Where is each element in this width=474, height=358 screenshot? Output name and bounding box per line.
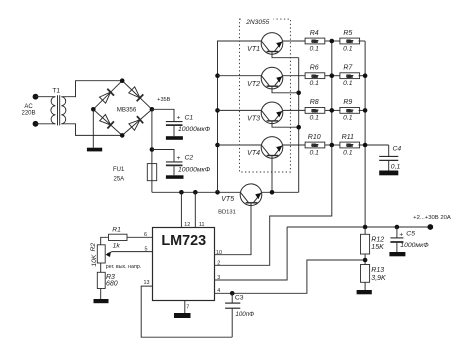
- wire bases bus vertical: [298, 58, 300, 193]
- wire VT4 emitter to R10: [283, 144, 306, 146]
- node bases bus VT3 junction: [296, 125, 301, 130]
- svg-text:+: +: [399, 231, 403, 238]
- bridge rectifier MB356: [93, 81, 152, 136]
- node C3 tap on pin 4 line: [230, 291, 235, 296]
- svg-text:FU1: FU1: [113, 167, 125, 173]
- wire collector bus to VT4: [218, 144, 262, 146]
- diode bottom-to-right: [129, 120, 140, 131]
- wire VT2 base to bases bus: [272, 86, 299, 93]
- resistor R12 15K: [361, 227, 385, 254]
- wire transformer secondary top to bridge top vertex: [61, 81, 122, 97]
- ground below pin 7: [174, 313, 191, 318]
- resistor R1 1k: [109, 226, 128, 249]
- svg-text:11: 11: [199, 222, 205, 228]
- wire R10 to R11 row 4: [325, 144, 340, 146]
- label AC 220V: [21, 104, 35, 116]
- svg-text:R7: R7: [343, 65, 353, 72]
- wire AC top to transformer primary: [36, 96, 56, 98]
- diode left-to-bottom: [100, 115, 111, 126]
- svg-text:1000мкФ: 1000мкФ: [400, 242, 429, 249]
- ground below C5: [389, 252, 405, 256]
- wire VT2 emitter to R6: [283, 75, 306, 77]
- dashed group box 2N3055: [240, 19, 291, 172]
- wire pin 12 lead: [180, 192, 182, 227]
- wire LM723 pin 3 up to output line: [215, 227, 288, 280]
- node rail pin12 tap: [179, 190, 184, 195]
- diode left-to-top: [100, 92, 111, 103]
- svg-text:+: +: [177, 115, 181, 122]
- capacitor C4 0.1: [379, 145, 401, 171]
- wire bridge left vertex to ground: [92, 109, 94, 147]
- ground below C4: [379, 171, 398, 176]
- svg-text:15K: 15K: [371, 244, 384, 251]
- svg-text:100пФ: 100пФ: [235, 311, 254, 318]
- node output terminal: [427, 224, 433, 230]
- wire +35V rail from fuse to VT5 collector: [152, 191, 241, 193]
- node bridge top vertex: [120, 78, 125, 83]
- svg-text:рег. вых. напр.: рег. вых. напр.: [106, 264, 142, 270]
- node AC input bottom terminal: [33, 121, 39, 127]
- svg-text:R8: R8: [310, 99, 319, 106]
- wire R12 to R13: [364, 254, 366, 265]
- svg-text:R2: R2: [90, 243, 97, 252]
- wire R11 to bus2 and C4 row 4: [359, 144, 389, 146]
- node bus1 row 1: [330, 39, 335, 44]
- resistor R3 680: [97, 272, 117, 288]
- svg-text:R10: R10: [308, 134, 321, 141]
- capacitor C2 10000uF: [166, 155, 211, 176]
- resistor R13 3.9K: [361, 265, 387, 283]
- svg-text:C5: C5: [406, 230, 415, 237]
- node bus1 row 3: [330, 108, 335, 113]
- svg-text:T1: T1: [52, 88, 60, 95]
- svg-text:R6: R6: [310, 65, 319, 72]
- resistor R9 0.1 5W: [340, 108, 360, 114]
- ground below C2: [166, 175, 184, 179]
- node C2 branch: [150, 147, 155, 152]
- svg-text:VT4: VT4: [247, 150, 260, 157]
- transistor VT3: [261, 102, 283, 124]
- svg-text:7: 7: [186, 305, 189, 311]
- node bridge left vertex: [91, 107, 96, 112]
- wire VT3 emitter to R8: [283, 109, 306, 111]
- transistor VT2: [261, 67, 283, 89]
- svg-text:C1: C1: [185, 114, 194, 121]
- wire R6 to R7 row 2: [325, 75, 340, 77]
- node divider junction: [363, 258, 368, 263]
- svg-text:10: 10: [216, 250, 222, 256]
- capacitor C5 1000uF: [390, 227, 429, 252]
- node bus1 row 2: [330, 73, 335, 78]
- svg-text:10000мкФ: 10000мкФ: [178, 167, 211, 174]
- svg-text:0.1: 0.1: [343, 149, 353, 156]
- transistor VT1: [261, 33, 283, 55]
- wire C2 branch: [152, 150, 174, 162]
- wire VT1 base to bases bus: [272, 52, 299, 58]
- svg-text:C4: C4: [393, 145, 402, 152]
- wire LM723 pin 13 via bottom to C3: [141, 286, 232, 337]
- node bases bus VT2 junction: [296, 91, 301, 96]
- svg-text:1k: 1k: [113, 242, 121, 249]
- svg-text:10000мкФ: 10000мкФ: [178, 126, 211, 133]
- wire R3 to ground: [100, 289, 102, 300]
- node rail pin11 tap: [193, 190, 198, 195]
- diode top-to-right: [129, 87, 140, 98]
- node collector bus VT3: [215, 108, 220, 113]
- svg-text:10K: 10K: [91, 254, 98, 267]
- wire +35V node to C1: [152, 109, 174, 121]
- node bus1 row 4: [330, 143, 335, 148]
- node bus2 row 4: [363, 143, 368, 148]
- wire sense bus1 down to LM723 pin 2: [215, 41, 332, 265]
- transistor VT5 BD131: [240, 184, 262, 206]
- wire VT3 base to bases bus: [272, 121, 299, 127]
- resistor R11 0.1 5W: [340, 142, 360, 148]
- svg-text:R9: R9: [343, 99, 352, 106]
- svg-text:C2: C2: [185, 155, 194, 162]
- transformer T1: [51, 88, 66, 126]
- svg-text:R11: R11: [342, 134, 354, 141]
- svg-text:R4: R4: [310, 30, 319, 37]
- resistor R8 0.1 5W: [305, 108, 325, 114]
- svg-text:0.1: 0.1: [343, 115, 353, 122]
- svg-text:VT5: VT5: [221, 196, 234, 203]
- wire main +35V vertical through fuse: [151, 109, 153, 192]
- ground below bridge: [87, 148, 102, 152]
- ground below C1: [166, 136, 183, 140]
- svg-text:VT3: VT3: [247, 116, 260, 123]
- wire R2 bottom to R3: [100, 263, 102, 272]
- svg-text:R1: R1: [112, 226, 121, 233]
- resistor R5 0.1 5W: [340, 38, 360, 44]
- svg-text:220В: 220В: [21, 111, 35, 117]
- node bus2 row 3: [363, 108, 368, 113]
- wire R5 to bus2 row 1: [359, 40, 366, 42]
- svg-text:BD131: BD131: [218, 210, 236, 216]
- wire R13 to ground: [364, 282, 366, 290]
- svg-text:VT1: VT1: [247, 46, 260, 53]
- transistor VT4: [261, 137, 283, 159]
- node collector bus VT4: [215, 143, 220, 148]
- svg-text:LM723: LM723: [161, 233, 206, 249]
- wire R8 to R9 row 3: [325, 109, 340, 111]
- wire R9 to bus2 row 3: [359, 109, 366, 111]
- svg-text:R12: R12: [371, 237, 384, 244]
- wire transformer secondary bottom to bridge bottom vertex: [61, 124, 122, 136]
- wire R1 to LM723 pin 6: [127, 236, 153, 238]
- svg-text:0.1: 0.1: [309, 80, 319, 87]
- svg-text:3,9K: 3,9K: [371, 275, 386, 282]
- wire LM723 pin 5 to R2 wiper: [107, 252, 153, 254]
- svg-text:0.1: 0.1: [309, 45, 319, 52]
- wire pin 11 lead: [194, 192, 196, 227]
- wire R4 to R5 row 1: [325, 40, 340, 42]
- svg-text:0,1: 0,1: [391, 164, 401, 171]
- resistor R10 0.1 5W: [305, 142, 325, 148]
- wire AC bottom to transformer primary: [36, 123, 56, 125]
- resistor R7 0.1 5W: [340, 73, 360, 79]
- wire output bus2 down to output line: [364, 41, 366, 227]
- svg-text:13: 13: [144, 280, 150, 286]
- svg-text:0.1: 0.1: [343, 80, 353, 87]
- svg-text:0.1: 0.1: [343, 45, 353, 52]
- IC LM723: [153, 228, 215, 301]
- svg-text:0.1: 0.1: [309, 115, 319, 122]
- wire R1 left to R2 top: [101, 237, 109, 245]
- svg-text:12: 12: [184, 222, 190, 228]
- capacitor C1 10000uF: [166, 114, 211, 136]
- wire pin 7 to ground: [184, 301, 186, 314]
- svg-text:+2...+30В 20А: +2...+30В 20А: [413, 215, 451, 221]
- node bridge bottom vertex: [120, 133, 125, 138]
- svg-text:25A: 25A: [114, 177, 125, 183]
- R2 wiper arrow: [106, 252, 111, 257]
- node bus2 row 2: [363, 73, 368, 78]
- node collector bus VT2: [215, 73, 220, 78]
- wire collector bus up to VT1: [218, 41, 262, 192]
- ground below R13: [357, 290, 372, 294]
- node VT5 emitter / VT4 base junction: [270, 190, 275, 195]
- svg-text:0.1: 0.1: [309, 149, 319, 156]
- resistor R6 0.1 5W: [305, 73, 325, 79]
- svg-text:R13: R13: [371, 267, 384, 274]
- svg-text:VT2: VT2: [247, 81, 260, 88]
- svg-text:2N3055: 2N3055: [245, 19, 269, 26]
- ground below R3: [94, 299, 109, 303]
- wire R7 to bus2 row 2: [359, 75, 366, 77]
- svg-text:+35В: +35В: [157, 97, 170, 103]
- node bridge right vertex (+35V): [150, 107, 155, 112]
- node AC input top terminal: [33, 94, 39, 100]
- wire VT4 base down to rail node: [271, 156, 273, 193]
- svg-text:+: +: [177, 155, 181, 162]
- svg-text:680: 680: [106, 281, 118, 288]
- resistor R4 0.1 5W: [305, 38, 325, 44]
- svg-text:R5: R5: [343, 30, 352, 37]
- wire collector bus to VT2: [218, 75, 262, 77]
- node rail collector-bus tap: [215, 190, 220, 195]
- wire output line: [287, 226, 430, 228]
- potentiometer R2 10K: [90, 243, 105, 267]
- svg-text:MB356: MB356: [117, 107, 137, 114]
- svg-text:AC: AC: [24, 104, 33, 110]
- fuse FU1 25A: [113, 164, 157, 183]
- node output C5 tap: [395, 225, 400, 230]
- wire VT1 emitter to R4: [283, 40, 306, 42]
- wire LM723 pin 4 to divider junction: [215, 260, 366, 293]
- wire VT5 base to LM723 pin 10: [215, 203, 252, 255]
- wire VT5 emitter to bases bus corner: [262, 191, 299, 193]
- capacitor C3 100pF: [225, 293, 254, 337]
- svg-text:2: 2: [217, 260, 220, 266]
- wire collector bus to VT3: [218, 109, 262, 111]
- node output bus2 junction: [363, 225, 368, 230]
- svg-text:C3: C3: [235, 294, 244, 301]
